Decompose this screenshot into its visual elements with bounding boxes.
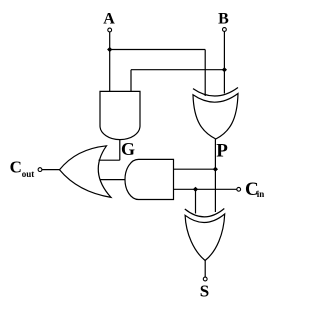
svg-text:S: S (200, 282, 209, 301)
wire B branch horizontal to AND U1 (131, 69, 224, 71)
xor-gate U5 body (185, 214, 225, 261)
svg-text:in: in (257, 189, 265, 199)
node junction on A (107, 47, 112, 52)
wire B vertical into XOR U2 (223, 32, 225, 94)
wire U1 output stub G (119, 140, 121, 161)
and-gate U3 (P AND Cin, pointing left) (125, 159, 174, 199)
wire U3 output to OR U4 (100, 179, 126, 181)
node junction on P (213, 167, 218, 172)
svg-text:C: C (10, 158, 22, 177)
terminal B (223, 28, 227, 32)
wire A branch vertical into XOR U2 (204, 50, 206, 97)
terminal A (108, 28, 112, 32)
terminal S (203, 277, 207, 281)
wire G to OR U4 (99, 159, 120, 161)
terminal Cin (237, 187, 241, 191)
node junction on B (222, 67, 227, 72)
wire Cin branch vertical into XOR U5 (195, 189, 197, 213)
terminal Cout (38, 168, 42, 172)
wire OR output to Cout (42, 169, 60, 171)
wire P to AND U3 top input (174, 168, 216, 170)
and-gate U1 (A AND B, output G, pointing down) (100, 91, 140, 139)
svg-text:P: P (216, 141, 228, 162)
wire Cin horizontal (174, 188, 237, 190)
xor-gate U2 body (193, 94, 238, 140)
wire A branch horizontal to XOR U2 (110, 49, 206, 51)
wire B branch vertical into AND U1 (130, 70, 132, 92)
svg-text:G: G (121, 139, 135, 159)
svg-text:B: B (218, 11, 229, 28)
or-gate U4 (Cout = G + P·Cin, pointing left) (60, 146, 112, 198)
svg-text:out: out (22, 169, 35, 179)
wire A vertical into AND U1 (109, 32, 111, 91)
node junction on Cin (193, 187, 198, 192)
wire U5 output stub S (204, 261, 206, 278)
wire U2 output stub P (214, 139, 216, 212)
xor-gate U5 (S = P XOR Cin, pointing down): input arc (185, 209, 225, 217)
svg-text:A: A (103, 11, 115, 28)
xor-gate U2 (A XOR B, output P, pointing down): input arc (193, 88, 238, 97)
